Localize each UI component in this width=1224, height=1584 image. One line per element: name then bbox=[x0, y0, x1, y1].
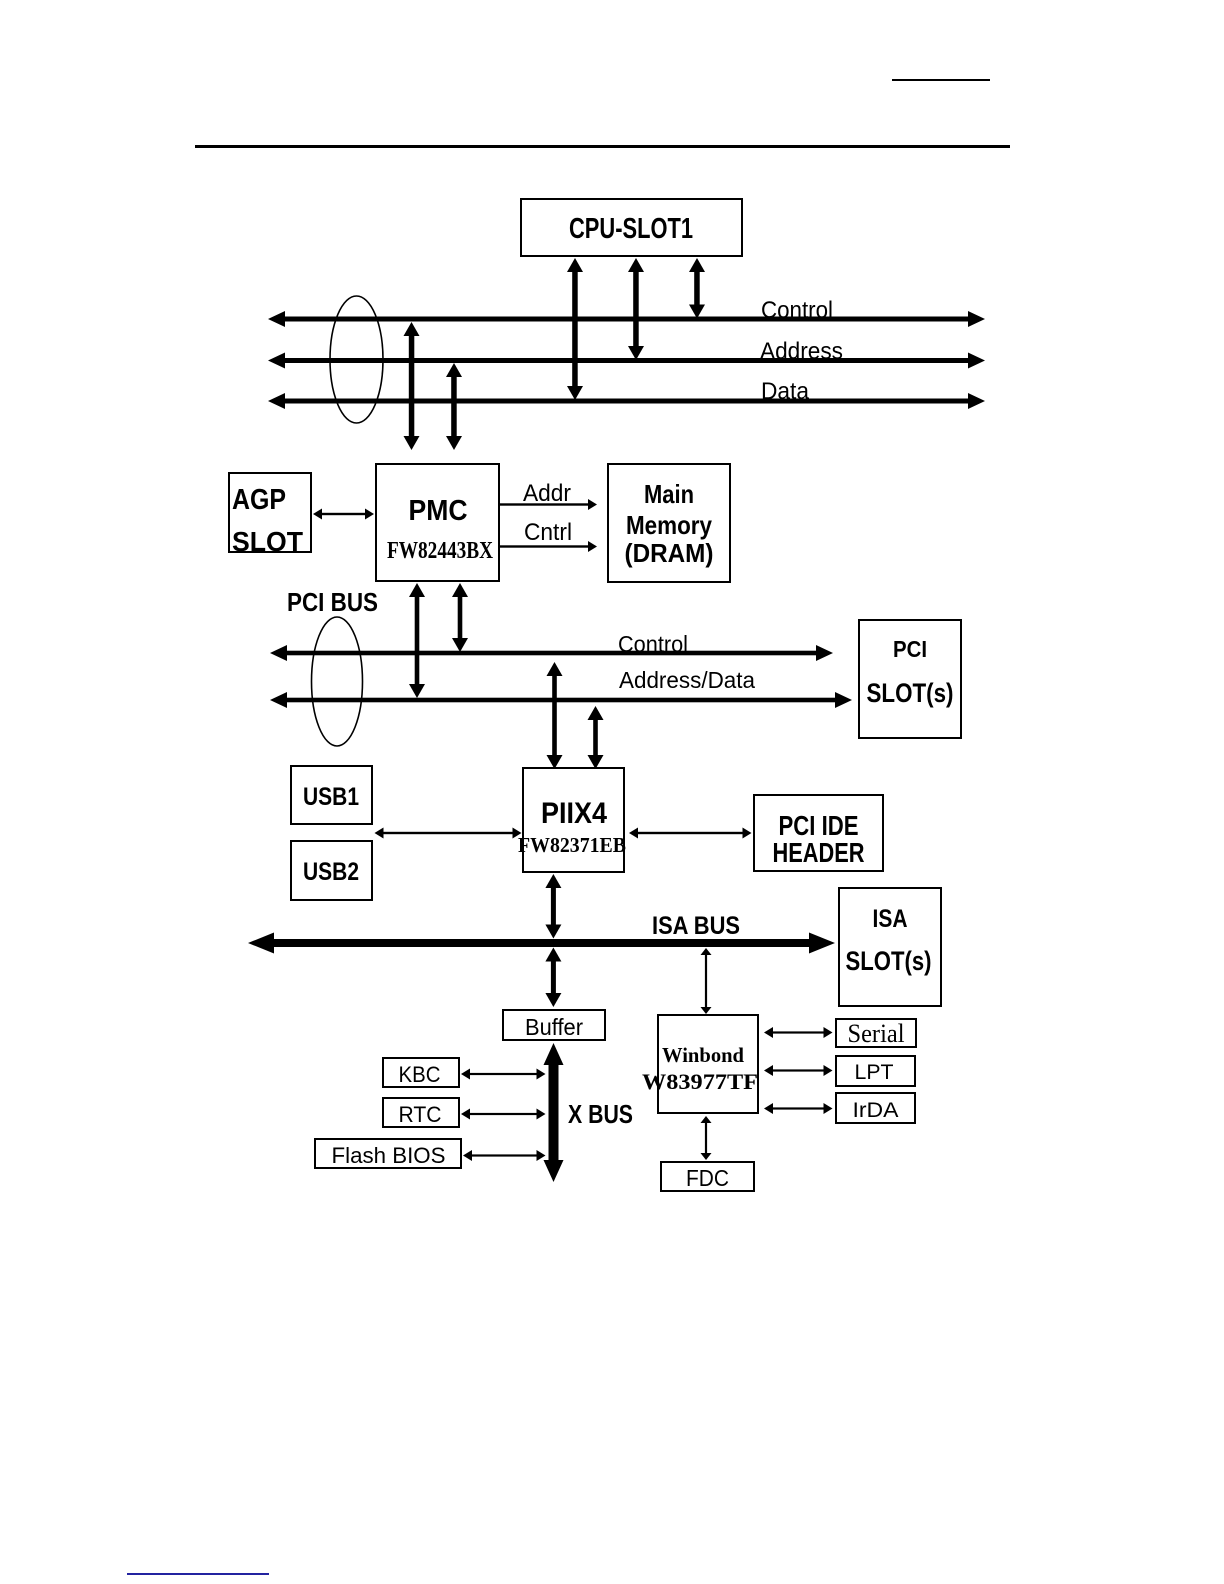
arrow USB to PIIX4 bbox=[375, 828, 522, 839]
block USB2 bbox=[291, 841, 372, 900]
svg-text:Control: Control bbox=[761, 297, 833, 324]
arrow PCI Control bus to PIIX4 bbox=[547, 662, 563, 769]
svg-text:PCI BUS: PCI BUS bbox=[287, 587, 378, 617]
svg-text:AGP: AGP bbox=[232, 484, 286, 516]
arrow Cntrl PMC to Main Memory bbox=[500, 541, 597, 552]
svg-text:USB1: USB1 bbox=[303, 783, 359, 811]
block AGP SLOT bbox=[229, 473, 311, 557]
bus line Address/Data (PCI) bbox=[270, 692, 852, 708]
label Data (host) bbox=[761, 378, 810, 405]
block FDC bbox=[661, 1162, 754, 1191]
arrow KBC to X BUS bbox=[461, 1069, 546, 1080]
block PCI SLOT(s) bbox=[859, 620, 961, 738]
label Control (host) bbox=[761, 297, 833, 324]
svg-text:FDC: FDC bbox=[686, 1165, 729, 1191]
svg-text:Flash BIOS: Flash BIOS bbox=[332, 1143, 446, 1168]
arrow RTC to X BUS bbox=[461, 1109, 546, 1120]
arrow ISA bus to Buffer bbox=[545, 948, 561, 1008]
block Main Memory (DRAM) bbox=[608, 464, 730, 582]
svg-text:Addr: Addr bbox=[523, 480, 571, 507]
header rule bbox=[195, 145, 1010, 148]
arrow host Control bus down toward PMC bbox=[404, 322, 420, 450]
svg-text:RTC: RTC bbox=[399, 1102, 442, 1127]
arrow Flash BIOS to X BUS bbox=[463, 1150, 546, 1161]
bus line Address (host) bbox=[268, 353, 985, 369]
arrow PIIX4 to ISA bus bbox=[545, 874, 561, 939]
svg-text:Winbond: Winbond bbox=[662, 1043, 744, 1067]
svg-text:ISA: ISA bbox=[873, 905, 908, 933]
arrow CPU-SLOT1 to Control bus bbox=[689, 258, 705, 319]
svg-text:(DRAM): (DRAM) bbox=[625, 538, 714, 568]
block LPT bbox=[836, 1056, 915, 1086]
svg-text:Serial: Serial bbox=[848, 1019, 905, 1048]
svg-text:PIIX4: PIIX4 bbox=[541, 797, 607, 830]
ellipse PCI bus grouping bbox=[312, 617, 363, 746]
svg-text:IrDA: IrDA bbox=[853, 1099, 899, 1122]
block Serial bbox=[836, 1019, 916, 1048]
block RTC bbox=[383, 1098, 459, 1127]
arrow PMC to PCI Control bus bbox=[452, 583, 468, 652]
svg-text:Buffer: Buffer bbox=[525, 1014, 583, 1040]
arrow host Address bus down toward PMC bbox=[446, 363, 462, 450]
arrow Addr PMC to Main Memory bbox=[500, 499, 597, 510]
label Cntrl bbox=[524, 519, 572, 546]
svg-text:Control: Control bbox=[618, 631, 688, 657]
arrow CPU-SLOT1 to Address bus bbox=[628, 258, 644, 360]
svg-text:Address: Address bbox=[760, 338, 843, 365]
svg-text:FW82443BX: FW82443BX bbox=[387, 538, 494, 564]
svg-text:KBC: KBC bbox=[399, 1062, 441, 1087]
svg-text:Main: Main bbox=[644, 479, 694, 509]
svg-text:Memory: Memory bbox=[626, 510, 712, 540]
block PMC FW82443BX bbox=[376, 464, 499, 581]
label Addr bbox=[523, 480, 571, 507]
arrow PCI Address/Data bus to PIIX4 bbox=[588, 706, 604, 769]
label PCI BUS bbox=[287, 587, 378, 617]
block Flash BIOS bbox=[315, 1139, 461, 1168]
svg-text:USB2: USB2 bbox=[303, 858, 359, 886]
arrow PMC to PCI Address/Data bus bbox=[409, 583, 425, 698]
ellipse host bus grouping bbox=[330, 296, 383, 423]
svg-text:PCI: PCI bbox=[893, 636, 927, 662]
svg-text:LPT: LPT bbox=[855, 1061, 894, 1084]
block IrDA bbox=[836, 1093, 915, 1123]
block PIIX4 FW82371EB bbox=[518, 768, 626, 872]
footer link underline bbox=[127, 1573, 269, 1575]
bus line Data (host) bbox=[268, 393, 985, 409]
bus line Control (host) bbox=[268, 311, 985, 327]
arrow Winbond to Serial bbox=[764, 1027, 833, 1038]
svg-text:HEADER: HEADER bbox=[773, 837, 865, 868]
label ISA BUS bbox=[652, 912, 740, 940]
arrow ISA bus to Winbond bbox=[701, 948, 712, 1014]
header underline top-right bbox=[892, 79, 990, 81]
arrow PIIX4 to PCI IDE HEADER bbox=[629, 828, 752, 839]
block Winbond W83977TF bbox=[642, 1015, 758, 1113]
label Address (host) bbox=[760, 338, 843, 365]
svg-text:ISA BUS: ISA BUS bbox=[652, 912, 740, 940]
arrow Winbond to IrDA bbox=[764, 1103, 833, 1114]
svg-text:PMC: PMC bbox=[409, 495, 468, 527]
arrow AGP SLOT to PMC bbox=[313, 509, 374, 520]
svg-text:Data: Data bbox=[761, 378, 810, 405]
svg-text:X BUS: X BUS bbox=[568, 1099, 633, 1129]
bus line Control (PCI) bbox=[270, 645, 833, 661]
svg-text:Address/Data: Address/Data bbox=[619, 667, 755, 693]
block Buffer bbox=[503, 1010, 605, 1040]
svg-text:FW82371EB: FW82371EB bbox=[518, 833, 626, 857]
arrow Winbond to LPT bbox=[764, 1065, 833, 1076]
svg-text:SLOT(s): SLOT(s) bbox=[846, 946, 932, 976]
block KBC bbox=[383, 1058, 459, 1087]
arrow CPU-SLOT1 to Data bus bbox=[567, 258, 583, 400]
block ISA SLOT(s) bbox=[839, 888, 941, 1006]
label Control (PCI) bbox=[618, 631, 688, 657]
svg-text:SLOT: SLOT bbox=[232, 526, 303, 557]
bus line ISA bbox=[248, 933, 835, 954]
svg-text:SLOT(s): SLOT(s) bbox=[867, 678, 954, 708]
label Address/Data bbox=[619, 667, 755, 693]
svg-text:CPU-SLOT1: CPU-SLOT1 bbox=[569, 213, 693, 245]
block PCI IDE HEADER bbox=[754, 795, 883, 871]
arrow Winbond to FDC bbox=[701, 1116, 712, 1160]
block CPU-SLOT1 bbox=[521, 199, 742, 256]
block USB1 bbox=[291, 766, 372, 824]
bus bar X BUS bbox=[544, 1043, 564, 1182]
svg-text:W83977TF: W83977TF bbox=[642, 1069, 758, 1094]
label X BUS bbox=[568, 1099, 633, 1129]
svg-text:Cntrl: Cntrl bbox=[524, 519, 572, 546]
